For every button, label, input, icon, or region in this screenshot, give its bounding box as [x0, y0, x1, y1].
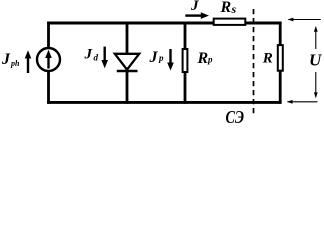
label Rs: [220, 0, 237, 16]
wire diode branch: [126, 22, 129, 104]
wire right branch: [279, 22, 282, 104]
diode D: [115, 54, 139, 71]
svg-text:p: p: [158, 53, 164, 63]
wire left branch: [47, 22, 50, 104]
svg-text:J: J: [84, 47, 93, 63]
wire Rp branch: [184, 22, 187, 104]
svg-text:J: J: [190, 0, 199, 14]
svg-text:СЭ: СЭ: [226, 107, 245, 124]
svg-text:R: R: [197, 50, 209, 67]
label Jph: [1, 51, 20, 68]
dimension arrow vertical lower: [314, 72, 318, 98]
dimension arrow bottom: [287, 100, 318, 104]
arrow J right: [185, 12, 209, 19]
resistor R load: [278, 45, 283, 71]
dimension arrow top: [288, 18, 321, 22]
resistor Rs: [214, 19, 246, 25]
svg-text:J: J: [149, 49, 159, 66]
resistor Rp: [183, 49, 188, 72]
label Jp: [149, 49, 165, 66]
svg-text:ph: ph: [10, 59, 20, 68]
wire bottom bus: [47, 101, 282, 104]
label Rp: [197, 50, 214, 67]
label Jd: [84, 47, 99, 63]
svg-text:p: p: [207, 55, 213, 65]
wire top bus: [47, 22, 282, 25]
arrow Jd down: [101, 47, 108, 69]
svg-text:d: d: [94, 53, 99, 63]
svg-text:U: U: [309, 51, 322, 70]
arrow Jph up: [25, 50, 32, 73]
dimension arrow vertical upper: [314, 26, 318, 49]
svg-text:R: R: [262, 51, 273, 67]
dashed boundary line: [253, 9, 255, 117]
current source Jph: [37, 48, 60, 71]
svg-text:R: R: [220, 0, 232, 16]
arrow Jp down: [167, 49, 174, 71]
svg-text:J: J: [1, 51, 11, 68]
svg-text:s: s: [231, 2, 237, 16]
